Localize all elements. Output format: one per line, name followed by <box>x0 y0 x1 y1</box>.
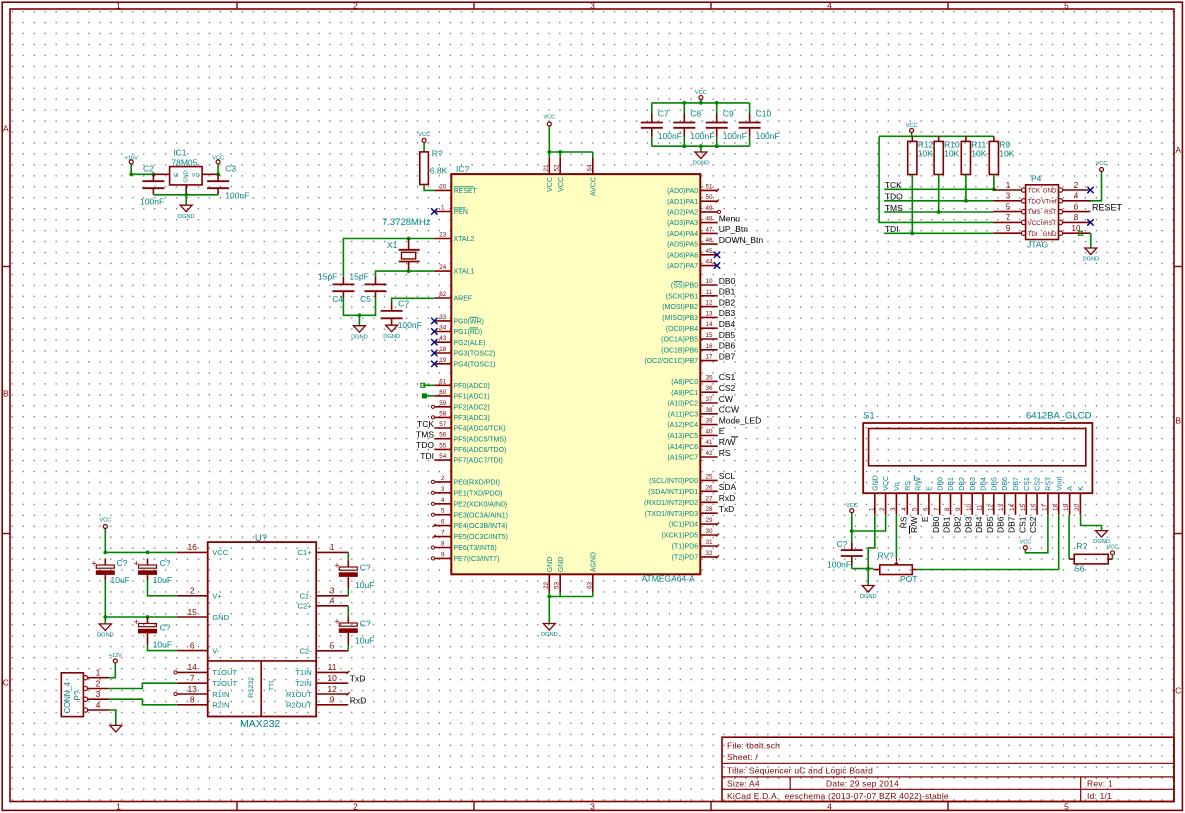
svg-text:DB6: DB6 <box>996 516 1006 533</box>
value 7.3728MHz <box>382 217 431 228</box>
svg-text:T2OUT: T2OUT <box>212 679 237 688</box>
junction <box>216 172 220 176</box>
S1 pin 11 (DB4) <box>974 477 988 533</box>
U? pin 16 (VCC) <box>177 542 229 557</box>
svg-text:TCK: TCK <box>1028 188 1041 195</box>
capacitor C? 10uF (e) <box>334 617 374 646</box>
junction <box>547 150 551 154</box>
svg-text:GND: GND <box>558 557 565 573</box>
svg-text:10uF: 10uF <box>153 575 172 585</box>
no-connect P4 pin 8 <box>1087 219 1093 225</box>
svg-text:R?: R? <box>1076 541 1087 551</box>
svg-text:(SS)PB0: (SS)PB0 <box>671 283 698 290</box>
svg-text:8: 8 <box>944 507 951 511</box>
svg-text:8: 8 <box>1074 213 1079 222</box>
wire (pullup rail) <box>879 135 994 137</box>
svg-text:(AD2)PA2: (AD2)PA2 <box>667 210 698 217</box>
svg-text:DB6: DB6 <box>719 341 736 351</box>
svg-text:KiCad E.D.A. eeschema (2013-0: KiCad E.D.A. eeschema (2013-07-07 BZR 40… <box>727 791 949 801</box>
power VCC (P4 VTref) <box>1096 161 1108 171</box>
svg-text:DB7: DB7 <box>719 351 736 361</box>
S1 pin 14 (DB7) <box>1007 477 1021 533</box>
svg-text:3: 3 <box>590 801 595 811</box>
svg-text:58: 58 <box>439 410 447 417</box>
junction <box>103 615 107 619</box>
svg-text:24: 24 <box>439 264 447 271</box>
svg-text:PE6(T3/INT6): PE6(T3/INT6) <box>454 545 497 552</box>
svg-text:DB2: DB2 <box>959 477 966 491</box>
junction <box>682 144 686 148</box>
svg-text:+12V: +12V <box>109 653 123 659</box>
wire <box>1090 233 1092 248</box>
IC? pin 47 ((AD4)PA4) <box>667 224 748 238</box>
S1 pin 12 (DB5) <box>985 477 999 533</box>
svg-text:VCC: VCC <box>543 115 555 121</box>
wire <box>1025 515 1048 553</box>
net label TMS <box>885 203 903 213</box>
svg-text:C2+: C2+ <box>298 602 313 611</box>
junction <box>992 187 996 191</box>
svg-text:7: 7 <box>441 530 445 537</box>
IC? pin 3 (PE1(TXD/PDO)) <box>431 486 502 498</box>
capacitor C? 10uF (a) <box>91 558 130 585</box>
svg-text:DB2: DB2 <box>953 516 963 533</box>
svg-text:4: 4 <box>827 801 832 811</box>
svg-text:DOWN_Btn: DOWN_Btn <box>719 235 764 245</box>
IC? pin 41 ((A14)PC6) <box>667 437 738 451</box>
junction <box>547 595 551 599</box>
wire (gnd rail) <box>105 616 177 618</box>
svg-text:5: 5 <box>1064 801 1069 811</box>
svg-text:16: 16 <box>1031 503 1038 511</box>
junction <box>850 529 854 533</box>
svg-text:19: 19 <box>439 357 447 364</box>
svg-text:VCC: VCC <box>1028 220 1042 227</box>
capacitor C2 <box>140 164 164 207</box>
svg-text:C?: C? <box>160 623 171 633</box>
IC? pin 39 ((A12)PC4) <box>667 415 761 429</box>
svg-text:VCC: VCC <box>212 548 229 557</box>
wire (vcc to pin16) <box>105 551 177 553</box>
svg-text:P?: P? <box>73 690 82 700</box>
title block <box>722 737 1174 801</box>
svg-text:R2OUT: R2OUT <box>286 701 312 710</box>
P4 pin 10 (GND) <box>1043 224 1091 238</box>
svg-text:7: 7 <box>1006 213 1011 222</box>
svg-text:(A11)PC3: (A11)PC3 <box>668 411 698 418</box>
regulator IC1 78M05 body <box>170 148 203 185</box>
IC? pin 50 ((AD1)PA1) <box>667 194 719 206</box>
net label TDO <box>885 192 903 202</box>
svg-text:CS2: CS2 <box>1028 516 1038 533</box>
svg-text:22: 22 <box>543 581 550 589</box>
svg-text:PF5(ADC5/TMS): PF5(ADC5/TMS) <box>454 436 507 443</box>
IC? pin 15 ((OC1A)PB5) <box>661 330 735 344</box>
svg-text:14: 14 <box>705 321 713 328</box>
svg-text:+: + <box>91 559 96 569</box>
svg-text:DB1: DB1 <box>948 477 955 491</box>
svg-text:39: 39 <box>705 418 713 425</box>
U? pin 15 (GND) <box>177 607 230 622</box>
svg-text:23: 23 <box>439 232 447 239</box>
U? pin 12 (R1OUT) <box>286 684 350 699</box>
IC? pin 45 ((AD6)PA6) <box>667 248 720 260</box>
svg-text:49: 49 <box>705 205 713 212</box>
IC? pin 2 (PE0(RXD/PDI)) <box>431 475 499 487</box>
IC? pin 46 ((AD5)PA5) <box>667 235 763 249</box>
capacitor C10 100nF <box>739 103 780 146</box>
IC? pin 11 ((SCK)PB1) <box>666 287 736 301</box>
svg-text:RST: RST <box>1046 476 1053 491</box>
svg-text:3: 3 <box>890 507 897 511</box>
svg-text:11: 11 <box>977 504 984 511</box>
junction <box>146 615 150 619</box>
svg-text:15pF: 15pF <box>318 272 337 282</box>
svg-text:XTAL2: XTAL2 <box>454 236 475 243</box>
svg-text:+: + <box>134 559 139 569</box>
svg-text:(AD7)PA7: (AD7)PA7 <box>667 263 698 270</box>
svg-text:RxD: RxD <box>350 695 367 705</box>
wire (gnd rail) <box>153 194 218 196</box>
svg-text:TxD: TxD <box>350 674 366 684</box>
power VCC (GLCD) <box>846 503 858 513</box>
svg-text:DGND: DGND <box>351 334 368 340</box>
capacitor C? 10uF (d) <box>334 561 374 591</box>
capacitor C? 100nF (AREF) <box>381 299 422 331</box>
ground DGND (MAX232) <box>97 624 114 639</box>
junction <box>129 172 133 176</box>
svg-text:4: 4 <box>1074 192 1079 201</box>
svg-text:3: 3 <box>441 486 445 493</box>
svg-text:1: 1 <box>116 1 121 11</box>
svg-text:GND: GND <box>184 170 190 182</box>
svg-text:DGND: DGND <box>178 214 195 220</box>
svg-text:100nF: 100nF <box>827 559 851 569</box>
svg-text:100nF: 100nF <box>756 131 780 141</box>
svg-text:21: 21 <box>543 164 550 172</box>
svg-text:18: 18 <box>439 346 447 353</box>
svg-text:DB5: DB5 <box>991 477 998 491</box>
svg-text:C?: C? <box>360 619 371 629</box>
wire <box>549 596 593 598</box>
svg-text:63: 63 <box>586 581 593 589</box>
svg-text:1: 1 <box>1006 181 1011 190</box>
svg-text:16: 16 <box>187 542 197 552</box>
IC1 pin GND <box>185 185 187 195</box>
svg-text:VTref: VTref <box>1042 198 1057 205</box>
IC? pin 6 (PE4(OC3B/INT4)) <box>433 519 508 531</box>
ic U? MAX232 body <box>208 533 317 730</box>
IC? pin 36 ((A9)PC1) <box>671 383 735 397</box>
svg-text:19: 19 <box>1063 503 1070 511</box>
power VCC (IC1 out) <box>212 155 224 164</box>
svg-text:17: 17 <box>705 354 713 361</box>
svg-text:48: 48 <box>705 216 713 223</box>
svg-text:C?: C? <box>360 563 371 573</box>
svg-text:RS: RS <box>719 448 731 458</box>
svg-text:VCC: VCC <box>1096 161 1108 167</box>
P4 pin 5 (TMS) <box>993 202 1040 216</box>
svg-text:C: C <box>3 678 9 688</box>
svg-text:C1-: C1- <box>299 592 312 601</box>
junction <box>937 210 941 214</box>
svg-text:TDI: TDI <box>420 451 434 461</box>
svg-text:(SCL/INT0)PD0: (SCL/INT0)PD0 <box>649 478 698 485</box>
svg-text:13: 13 <box>187 684 197 694</box>
svg-text:11: 11 <box>328 662 337 672</box>
svg-text:RS: RS <box>898 516 908 528</box>
svg-text:R/W: R/W <box>719 437 736 447</box>
capacitor C4 15pF <box>318 272 354 304</box>
svg-text:4: 4 <box>96 700 101 710</box>
IC1 pin VO <box>202 173 218 175</box>
junction <box>358 313 362 317</box>
svg-text:E: E <box>927 486 934 491</box>
IC? pin 14 ((OC0)PB4) <box>666 319 736 333</box>
svg-text:R/W: R/W <box>909 517 919 534</box>
svg-text:(OC1B)PB6: (OC1B)PB6 <box>661 347 698 354</box>
svg-text:7: 7 <box>190 673 195 683</box>
svg-text:9: 9 <box>330 695 335 705</box>
svg-text:DB1: DB1 <box>719 287 736 297</box>
U? pin 8 (R2IN) <box>177 695 230 710</box>
crystal X1 <box>387 239 420 272</box>
S1 pin 4 (RS) <box>898 481 912 529</box>
svg-text:32: 32 <box>705 550 713 557</box>
wire <box>185 195 187 205</box>
net label RESET (P4) <box>1092 202 1123 212</box>
svg-text:CS1: CS1 <box>1017 516 1027 533</box>
svg-text:55: 55 <box>439 442 447 449</box>
power +12V (conn) <box>109 653 123 663</box>
wire <box>343 298 375 316</box>
IC? pin 40 ((A13)PC5) <box>667 426 724 440</box>
svg-text:47: 47 <box>705 226 713 233</box>
wire <box>131 173 153 175</box>
svg-text:Size: A4: Size: A4 <box>727 779 760 789</box>
svg-text:TDO: TDO <box>416 440 434 450</box>
svg-text:40: 40 <box>705 428 713 435</box>
svg-text:20: 20 <box>1074 503 1081 511</box>
svg-text:VI: VI <box>173 173 179 179</box>
wire <box>424 185 434 191</box>
power VCC (GLCD RST) <box>1019 540 1031 550</box>
IC? pin 16 ((OC1B)PB6) <box>661 341 735 355</box>
svg-text:Mode_LED: Mode_LED <box>719 415 762 425</box>
svg-text:4: 4 <box>901 507 908 511</box>
svg-text:PF1(ADC1): PF1(ADC1) <box>454 394 490 401</box>
net label TDI <box>885 224 899 234</box>
wire <box>130 164 132 174</box>
IC? pin 26 ((SDA/INT1)PD1) <box>648 482 736 496</box>
power VCC (backlight) <box>1107 545 1119 555</box>
S1 pin 6 (E) <box>920 486 934 522</box>
svg-text:DB0: DB0 <box>937 477 944 491</box>
svg-text:4: 4 <box>330 596 335 606</box>
resistor R? 56 (backlight) <box>1069 541 1112 574</box>
svg-text:VCC: VCC <box>99 518 111 524</box>
svg-text:Rev: 1: Rev: 1 <box>1087 779 1113 789</box>
P? pin 1 <box>83 668 109 680</box>
svg-text:2: 2 <box>353 1 358 11</box>
connector P4 JTAG body <box>1026 174 1059 250</box>
U? pin 6 (V-) <box>177 640 220 655</box>
capacitor C3 <box>207 164 249 201</box>
svg-text:POT: POT <box>900 574 917 584</box>
power +15V <box>125 155 139 164</box>
microcontroller IC? ATMEGA64-A body <box>451 164 700 584</box>
junction <box>682 101 686 105</box>
svg-text:(SDA/INT1)PD1: (SDA/INT1)PD1 <box>648 489 698 496</box>
wire (TMS) <box>884 211 993 213</box>
IC? pin 7 (PE5(OC3C/INT5)) <box>433 530 508 542</box>
svg-text:PF3(ADC3): PF3(ADC3) <box>454 415 490 422</box>
S1 pin 7 (DB0) <box>931 477 945 533</box>
junction <box>407 237 411 241</box>
svg-text:TCK: TCK <box>417 419 434 429</box>
svg-text:C?: C? <box>117 558 128 568</box>
svg-text:(A9)PC1: (A9)PC1 <box>671 390 698 397</box>
svg-text:DGND: DGND <box>1093 539 1110 545</box>
svg-text:RS: RS <box>905 481 912 491</box>
svg-text:DB4: DB4 <box>719 319 736 329</box>
svg-text:6: 6 <box>923 507 930 511</box>
svg-text:R?: R? <box>432 149 443 159</box>
svg-text:61: 61 <box>439 378 447 385</box>
U? pin 5 (C2-) <box>299 641 348 656</box>
IC? pin 5 (PE3(OC3A/AIN1)) <box>431 508 508 520</box>
P4 pin 8 (nRST) <box>1041 213 1091 227</box>
junction <box>103 551 107 555</box>
P4 pin 6 (RST) <box>1044 202 1090 216</box>
power VCC (decoupling bank) <box>695 90 707 100</box>
svg-text:5: 5 <box>1064 1 1069 11</box>
svg-text:(AD0)PA0: (AD0)PA0 <box>667 188 698 195</box>
svg-text:62: 62 <box>439 291 447 298</box>
net label TCK <box>885 180 902 190</box>
junction <box>715 144 719 148</box>
svg-text:U?: U? <box>255 533 267 544</box>
svg-text:C5: C5 <box>360 294 371 304</box>
svg-text:C8: C8 <box>690 109 701 119</box>
wire <box>104 617 106 624</box>
svg-text:52: 52 <box>554 164 561 172</box>
svg-text:2: 2 <box>1074 181 1079 190</box>
svg-text:100nF: 100nF <box>225 191 249 201</box>
S1 pin 15 (CS1) <box>1017 477 1031 533</box>
IC? pin 53 (GND) <box>554 557 565 592</box>
IC? pin 61 (PF0(ADC0)) <box>421 378 490 390</box>
svg-text:57: 57 <box>439 421 447 428</box>
svg-text:5: 5 <box>441 508 445 515</box>
IC? pin 38 ((A11)PC3) <box>668 405 739 419</box>
svg-text:Vout: Vout <box>1056 477 1063 491</box>
IC? pin 20 (RESET) <box>434 183 477 195</box>
svg-text:6: 6 <box>1074 202 1079 211</box>
svg-text:11: 11 <box>706 289 713 296</box>
svg-text:(AD5)PA5: (AD5)PA5 <box>667 242 698 249</box>
svg-text:DGND: DGND <box>383 334 400 340</box>
junction <box>964 199 968 203</box>
svg-text:31: 31 <box>705 539 713 546</box>
svg-text:6412BA_GLCD: 6412BA_GLCD <box>1026 411 1092 422</box>
svg-text:41: 41 <box>705 439 713 446</box>
svg-text:PE5(OC3C/INT5): PE5(OC3C/INT5) <box>454 534 508 541</box>
junction <box>699 144 703 148</box>
svg-text:RESET: RESET <box>454 188 478 195</box>
svg-text:IC1: IC1 <box>173 148 187 158</box>
svg-text:R/W: R/W <box>916 477 923 491</box>
svg-text:46: 46 <box>705 237 713 244</box>
IC? pin 58 (PF3(ADC3)) <box>431 410 489 422</box>
U? pin 9 (R2OUT) <box>286 695 366 710</box>
svg-text:T1IN: T1IN <box>295 668 311 677</box>
svg-text:15pF: 15pF <box>349 272 368 282</box>
IC? pin 18 (PG3(TOSC2)) <box>431 346 495 358</box>
svg-text:TTL: TTL <box>269 679 276 691</box>
P4 pin 9 (TDI) <box>993 224 1038 238</box>
svg-text:PE0(RXD/PDI): PE0(RXD/PDI) <box>454 480 500 487</box>
svg-text:VCC: VCC <box>1107 545 1119 551</box>
svg-text:10K: 10K <box>999 148 1014 158</box>
svg-text:6.8K: 6.8K <box>430 165 448 175</box>
power VCC (JTAG pullups) <box>906 123 918 133</box>
svg-text:12: 12 <box>987 503 994 511</box>
svg-text:C10: C10 <box>756 109 772 119</box>
wire (to P4 VCC pin) <box>879 136 993 222</box>
svg-text:PG0(WR): PG0(WR) <box>454 319 484 326</box>
svg-text:R1OUT: R1OUT <box>286 690 312 699</box>
svg-text:(A8)PC0: (A8)PC0 <box>671 379 698 386</box>
svg-text:VCC: VCC <box>418 132 430 138</box>
svg-text:DB4: DB4 <box>981 477 988 491</box>
wire (TDI) <box>884 232 993 234</box>
svg-text:(A13)PC5: (A13)PC5 <box>667 433 698 440</box>
svg-text:27: 27 <box>705 495 713 502</box>
svg-text:JTAG: JTAG <box>1027 239 1048 249</box>
svg-text:100nF: 100nF <box>690 131 714 141</box>
svg-text:(RXD1/INT2)PD2: (RXD1/INT2)PD2 <box>644 500 698 507</box>
wire <box>104 529 106 553</box>
svg-text:1: 1 <box>96 668 101 678</box>
IC? pin 52 (VCC) <box>554 157 565 191</box>
IC? pin 35 ((A8)PC0) <box>671 372 735 386</box>
S1 pin 1 (GND) <box>868 475 879 515</box>
wire <box>548 592 550 597</box>
svg-text:54: 54 <box>439 453 447 460</box>
svg-text:DB3: DB3 <box>970 477 977 491</box>
IC? pin 51 ((AD0)PA0) <box>667 183 719 195</box>
svg-text:100nF: 100nF <box>140 197 164 207</box>
wire <box>965 175 967 201</box>
svg-text:12: 12 <box>705 300 713 307</box>
IC1 pin VI <box>153 173 169 175</box>
S1 pin 20 (K) <box>1074 486 1085 515</box>
svg-text:Id: 1/1: Id: 1/1 <box>1087 791 1112 801</box>
svg-text:DGND: DGND <box>541 632 558 638</box>
svg-text:PG1(RD): PG1(RD) <box>454 329 483 336</box>
IC? pin 25 ((SCL/INT0)PD0) <box>649 471 735 485</box>
svg-text:RS232: RS232 <box>248 677 255 698</box>
svg-text:AREF: AREF <box>454 296 473 303</box>
wire <box>548 597 550 624</box>
svg-text:TMS: TMS <box>1028 209 1041 216</box>
svg-text:V-: V- <box>212 646 220 655</box>
resistor R10 10K <box>934 136 960 174</box>
svg-text:VCC: VCC <box>883 476 890 491</box>
junction <box>407 269 411 273</box>
wire <box>347 552 349 560</box>
